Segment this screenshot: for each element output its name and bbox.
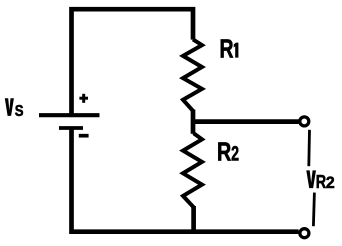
label R1 [219, 34, 238, 63]
wire: left branch from battery - down and bottom rail to output terminal [72, 128, 299, 232]
terminal: top output terminal circle [300, 117, 309, 126]
svg-text:2: 2 [326, 174, 335, 192]
svg-text:R: R [217, 137, 232, 166]
label R2 [217, 137, 239, 166]
wire: stub from R2 bottom to bottom rail [191, 206, 196, 232]
wire: top rail from left branch over to right branch, with left vertical down to battery + and right vertical down to R1 [72, 9, 194, 115]
lead: VR2 top measurement lead [307, 130, 311, 166]
wire: junction stub between R1 and R2 (node between resistors) [191, 110, 196, 134]
resistor R2 zigzag [183, 133, 202, 207]
svg-text:R: R [219, 34, 233, 63]
resistor R1 zigzag [183, 39, 202, 111]
voltage source VS (battery) bottom plate (negative) [59, 126, 83, 130]
battery negative polarity marker - [79, 134, 89, 138]
lead: VR2 bottom measurement lead [313, 193, 314, 227]
label VR2 [306, 170, 334, 192]
terminal: bottom output terminal circle [300, 229, 309, 238]
label VS [5, 98, 24, 120]
battery positive polarity marker + [79, 94, 88, 103]
svg-text:R: R [316, 171, 326, 192]
voltage source VS (battery) top plate (positive) [39, 113, 100, 117]
svg-text:2: 2 [231, 142, 239, 165]
svg-text:S: S [15, 103, 24, 121]
wire: tap from R1/R2 node to top output terminal [191, 119, 299, 124]
